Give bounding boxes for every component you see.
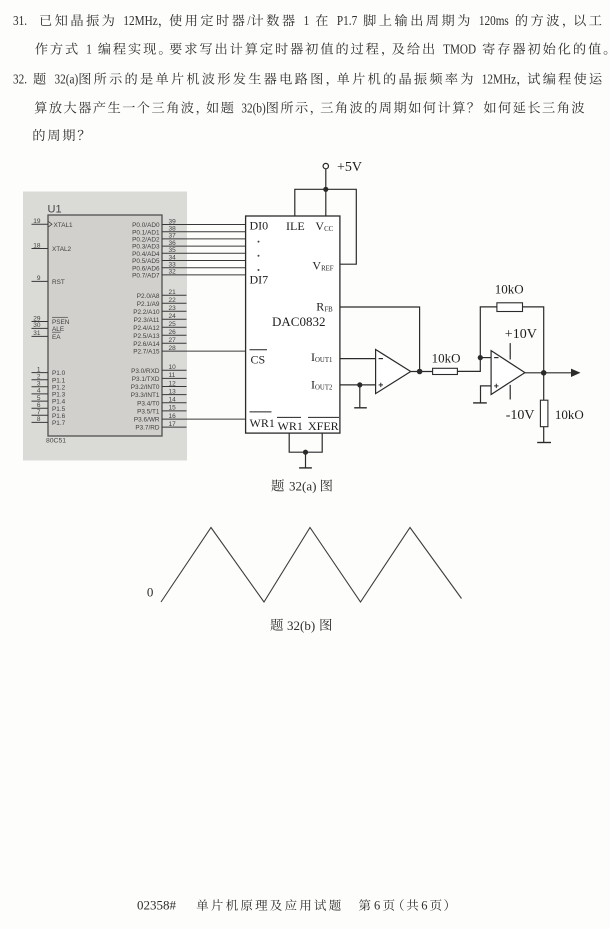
question 32 text line 2 (35, 101, 47, 113)
caption 32b (270, 618, 283, 630)
svg-text:19: 19 (33, 218, 41, 225)
svg-text:35: 35 (169, 247, 177, 254)
svg-text:32(a): 32(a) (55, 72, 79, 87)
svg-text:P0.2/AD2: P0.2/AD2 (132, 237, 160, 244)
pin 34 P0.5/AD5 (162, 260, 246, 262)
resistor R2 10kO feedback (497, 303, 523, 312)
svg-text:ILE: ILE (286, 219, 305, 233)
svg-text:33: 33 (169, 262, 177, 269)
svg-text:P1.1: P1.1 (52, 377, 66, 384)
ground below DAC (305, 452, 307, 468)
svg-text:P1.3: P1.3 (52, 392, 66, 399)
svg-text:21: 21 (169, 289, 177, 296)
svg-text:36: 36 (169, 240, 177, 247)
svg-text:18: 18 (33, 242, 41, 249)
wire R1 to op-amp2 (457, 358, 480, 372)
wire R2 to output node (523, 307, 544, 373)
svg-text:P3.7/RD: P3.7/RD (135, 425, 160, 432)
node IOUT2 ground junction (357, 382, 362, 387)
svg-text:CS: CS (251, 353, 266, 367)
svg-text:6: 6 (421, 899, 427, 913)
svg-text:WR1: WR1 (278, 419, 303, 433)
svg-text:26: 26 (169, 329, 177, 336)
pin 24 P2.3/A11 (162, 318, 187, 320)
svg-text:P1.0: P1.0 (52, 370, 66, 377)
question 31 text line 2 (35, 43, 47, 55)
pin 10 P3.0/RXD (162, 369, 187, 371)
DAC0832 body (246, 216, 340, 433)
svg-text:+5V: +5V (337, 160, 362, 175)
svg-text:RST: RST (52, 279, 65, 286)
svg-text:12: 12 (169, 380, 177, 387)
wire RFB feedback (340, 307, 420, 372)
svg-text:1: 1 (86, 42, 92, 57)
pin 32 P0.7/AD7 (162, 274, 246, 276)
svg-text:P1.7: P1.7 (52, 420, 66, 427)
pin 5 P1.4 (32, 400, 49, 402)
svg-text:EA: EA (52, 334, 61, 341)
triangle waveform (161, 528, 462, 603)
svg-text:17: 17 (169, 421, 177, 428)
pin 1 P1.0 (32, 372, 49, 374)
svg-text:P2.7/A15: P2.7/A15 (133, 349, 160, 356)
node +5V junction (323, 187, 328, 192)
svg-text:P0.7/AD7: P0.7/AD7 (132, 273, 160, 280)
wire feedback branch (480, 307, 497, 358)
pin 30 ALE (32, 327, 49, 329)
ground at op-amp2 plus (473, 402, 487, 404)
node op-amp1 output (417, 369, 423, 375)
pin 6 P1.5 (32, 407, 49, 409)
wire ILE to +5V (295, 189, 326, 216)
pin 27 P2.6/A14 (162, 342, 187, 344)
pin 4 P1.3 (32, 393, 49, 395)
svg-text:P2.1/A9: P2.1/A9 (137, 301, 160, 308)
svg-text:80C51: 80C51 (46, 437, 66, 444)
svg-text:XTAL1: XTAL1 (54, 222, 74, 229)
svg-text:U1: U1 (48, 204, 62, 216)
node op-amp2 minus junction (478, 355, 483, 360)
svg-text:P0.5/AD5: P0.5/AD5 (132, 258, 160, 265)
svg-text:+10V: +10V (505, 327, 537, 342)
svg-text:31: 31 (33, 330, 41, 337)
wire op-amp1 output (411, 371, 433, 373)
wire output node to R3 (543, 373, 545, 400)
output arrow (571, 369, 581, 377)
svg-text:P0.3/AD3: P0.3/AD3 (132, 244, 160, 251)
op-amp2 -V supply pin (509, 385, 511, 400)
svg-text:XFER: XFER (308, 419, 339, 433)
pin 29 PSEN (32, 321, 49, 323)
pin 13 P3.3/INT1 (162, 394, 187, 396)
svg-text:16: 16 (169, 413, 177, 420)
svg-text:28: 28 (169, 345, 177, 352)
pin 25 P2.4/A12 (162, 326, 187, 328)
svg-text:P1.4: P1.4 (52, 399, 66, 406)
pin 39 P0.0/AD0 (162, 224, 246, 226)
pin 14 P3.4/T0 (162, 402, 187, 404)
ground below R3 (543, 427, 545, 443)
svg-text:WR1: WR1 (250, 416, 275, 430)
svg-text:P0.6/AD6: P0.6/AD6 (132, 265, 160, 272)
wire VREF to +5V (326, 189, 357, 264)
svg-text:P2.5/A13: P2.5/A13 (133, 333, 160, 340)
svg-text:P0.1/AD1: P0.1/AD1 (132, 229, 160, 236)
svg-text:15: 15 (169, 405, 177, 412)
svg-text:P3.1/TXD: P3.1/TXD (132, 376, 160, 383)
caption 32a (271, 479, 284, 491)
pin 35 P0.4/AD4 (162, 252, 246, 254)
svg-text:34: 34 (169, 254, 177, 261)
ground at op-amp1 plus (359, 385, 361, 408)
svg-text:P2.0/A8: P2.0/A8 (137, 293, 160, 300)
svg-text:P3.0/RXD: P3.0/RXD (131, 368, 160, 375)
pin 23 P2.2/A10 (162, 310, 187, 312)
svg-text:P1.6: P1.6 (52, 413, 66, 420)
svg-text:10kO: 10kO (495, 281, 524, 296)
pin 31 EA (32, 335, 49, 337)
svg-text:1: 1 (37, 366, 41, 373)
pin 21 P2.0/A8 (162, 294, 187, 296)
svg-text:4: 4 (37, 388, 41, 395)
node output junction (541, 370, 547, 376)
svg-text:02358#: 02358# (137, 898, 177, 913)
op-amp2 +V supply pin (509, 343, 511, 359)
svg-text:2: 2 (37, 374, 41, 381)
svg-text:12MHz: 12MHz (482, 72, 516, 87)
svg-text:37: 37 (169, 233, 177, 240)
svg-text:P3.6/WR: P3.6/WR (134, 417, 160, 424)
question 32 text line 3 (33, 129, 44, 141)
pin 11 P3.1/TXD (162, 377, 187, 379)
svg-text:8: 8 (37, 416, 41, 423)
svg-text:P3.5/T1: P3.5/T1 (137, 409, 160, 416)
svg-text:10kO: 10kO (555, 407, 584, 422)
pin 8 P1.7 (32, 421, 49, 423)
svg-text:5: 5 (37, 395, 41, 402)
svg-text:7: 7 (37, 409, 41, 416)
pin 3 P1.2 (32, 386, 49, 388)
svg-text:1: 1 (304, 13, 310, 28)
svg-text:27: 27 (169, 337, 177, 344)
op-amp U4 (491, 351, 525, 395)
svg-text:DI0: DI0 (250, 219, 269, 233)
pin 15 P3.5/T1 (162, 410, 187, 412)
pin 33 P0.6/AD6 (162, 267, 246, 269)
pin 2 P1.1 (32, 379, 49, 381)
pin 16 P3.6/WR (162, 418, 246, 420)
svg-text:10: 10 (169, 364, 177, 371)
pin 17 P3.7/RD (162, 426, 187, 428)
svg-text:DI7: DI7 (250, 273, 269, 287)
svg-text:9: 9 (37, 275, 41, 282)
svg-text:12MHz: 12MHz (123, 13, 157, 28)
svg-text:P1.5: P1.5 (52, 406, 66, 413)
wire VCC to +5V (325, 189, 327, 216)
svg-text:120ms: 120ms (479, 13, 509, 28)
svg-text:P3.2/INT0: P3.2/INT0 (131, 384, 160, 391)
svg-text:P0.0/AD0: P0.0/AD0 (132, 222, 160, 229)
pin 19 XTAL1 (32, 223, 49, 225)
svg-text:24: 24 (169, 313, 177, 320)
wire +5V stem (325, 169, 327, 190)
node WR1-XFER junction (303, 450, 308, 455)
pin 38 P0.1/AD1 (162, 231, 246, 233)
svg-text:P2.4/A12: P2.4/A12 (133, 325, 160, 332)
pin 18 XTAL2 (32, 248, 49, 250)
resistor R3 10kO load (540, 400, 548, 427)
svg-text:P2.2/A10: P2.2/A10 (133, 309, 160, 316)
svg-text:11: 11 (169, 372, 176, 379)
pin 22 P2.1/A9 (162, 302, 187, 304)
svg-text:XTAL2: XTAL2 (52, 246, 72, 253)
pin 9 RST (32, 280, 49, 282)
svg-text:P3.4/T0: P3.4/T0 (137, 400, 160, 407)
wire op-amp2 plus to ground (481, 386, 492, 403)
pin 28 P2.7/A15 (162, 350, 246, 352)
svg-text:32(a): 32(a) (289, 479, 316, 494)
svg-text:23: 23 (169, 305, 177, 312)
svg-text:P1.7: P1.7 (337, 13, 358, 28)
svg-text:6: 6 (374, 899, 380, 913)
svg-text:0: 0 (147, 584, 154, 599)
pin 37 P0.2/AD2 (162, 238, 246, 240)
svg-text:3: 3 (37, 381, 41, 388)
svg-text:13: 13 (169, 388, 177, 395)
svg-text:30: 30 (33, 322, 41, 329)
pin 36 P0.3/AD3 (162, 245, 246, 247)
DI ellipsis dots (258, 241, 260, 243)
+5V terminal (323, 163, 328, 168)
wire IOUT1 to op-amp1 minus (340, 358, 376, 360)
svg-text:6: 6 (37, 402, 41, 409)
svg-text:/: / (247, 13, 250, 28)
svg-text:32(b): 32(b) (287, 618, 315, 633)
svg-text:P0.4/AD4: P0.4/AD4 (132, 251, 160, 258)
svg-text:32(b): 32(b) (241, 100, 265, 115)
svg-text:25: 25 (169, 321, 177, 328)
pin 7 P1.6 (32, 414, 49, 416)
svg-text:38: 38 (169, 226, 177, 233)
wire op-amp2 output (525, 372, 572, 374)
svg-text:32.: 32. (13, 72, 27, 87)
svg-text:32: 32 (169, 269, 177, 276)
svg-text:P2.3/A11: P2.3/A11 (134, 317, 160, 324)
grey panel behind 80C51 (23, 192, 187, 461)
80C51 MCU U1 body (48, 215, 162, 436)
wire to op-amp2 minus input (480, 357, 491, 359)
wire IOUT2 to op-amp1 plus (340, 384, 376, 386)
op-amp U3 (376, 350, 411, 394)
wire WR1 XFER to ground (289, 433, 322, 452)
svg-text:-10V: -10V (506, 408, 535, 423)
svg-text:TMOD: TMOD (443, 42, 476, 57)
svg-text:P2.6/A14: P2.6/A14 (133, 341, 160, 348)
svg-text:39: 39 (169, 218, 177, 225)
svg-text:31.: 31. (13, 13, 27, 28)
svg-text:14: 14 (169, 397, 177, 404)
svg-text:P3.3/INT1: P3.3/INT1 (131, 392, 160, 399)
svg-text:10kO: 10kO (432, 351, 461, 366)
resistor R1 10kO (433, 368, 458, 374)
svg-text:P1.2: P1.2 (52, 384, 66, 391)
svg-text:DAC0832: DAC0832 (272, 314, 325, 329)
svg-text:22: 22 (169, 297, 177, 304)
pin 26 P2.5/A13 (162, 334, 187, 336)
pin 12 P3.2/INT0 (162, 386, 187, 388)
